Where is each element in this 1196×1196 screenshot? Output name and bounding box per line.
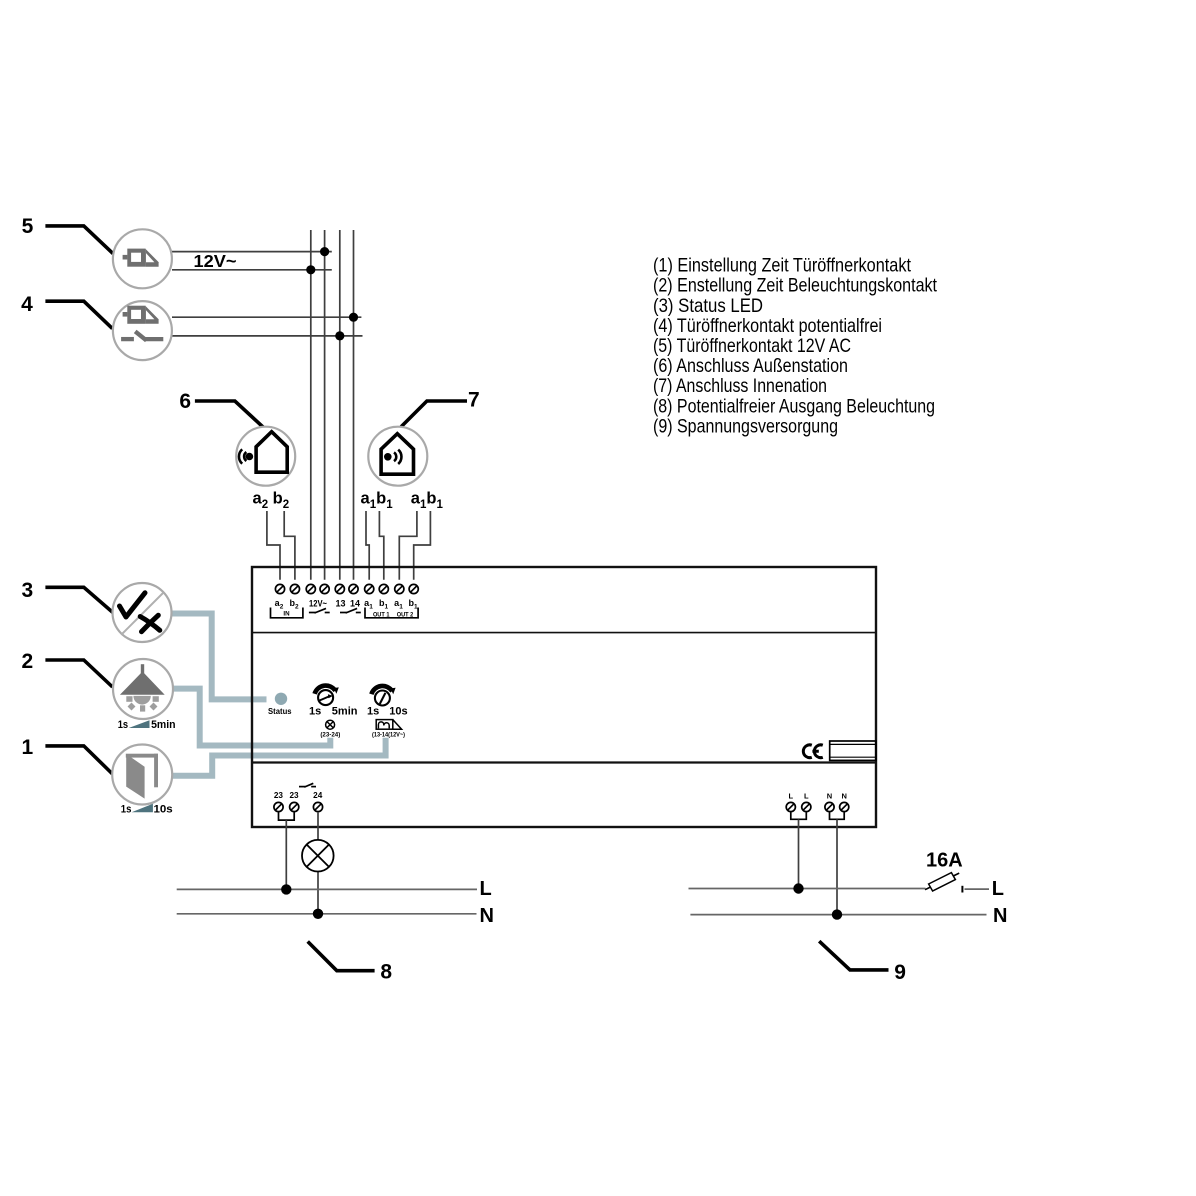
terminals L L N N: [789, 792, 847, 801]
svg-text:N: N: [841, 792, 846, 801]
svg-text:N: N: [827, 792, 832, 801]
svg-text:(2) Enstellung Zeit Beleuchtun: (2) Enstellung Zeit Beleuchtungskontakt: [653, 275, 937, 297]
leader line 9: [819, 941, 888, 970]
wire 12V~ bus 2: [324, 230, 326, 580]
wire b1 to terminal OUT1: [379, 511, 383, 580]
door opener symbol (13-14): [376, 720, 401, 730]
svg-text:2: 2: [21, 650, 33, 673]
contact symbol 12V~: [309, 608, 330, 613]
svg-text:5min: 5min: [332, 705, 358, 717]
terminal L (2): [802, 802, 811, 811]
svg-text:1s: 1s: [367, 705, 379, 717]
terminal labels row: [275, 598, 418, 611]
svg-text:14: 14: [350, 599, 360, 609]
leader line 5: [45, 226, 113, 254]
junction node on bus 13: [335, 331, 344, 340]
contact symbol 13-14: [340, 608, 361, 613]
relay contact symbol above 24: [299, 783, 316, 787]
svg-text:3: 3: [21, 579, 33, 602]
leader line 2: [45, 660, 112, 687]
svg-text:5: 5: [22, 215, 34, 238]
fuse 16A: [925, 873, 959, 891]
svg-text:L: L: [992, 878, 1004, 900]
leader line 7: [401, 401, 467, 427]
svg-text:6: 6: [179, 390, 191, 413]
junction node on bus 1: [306, 265, 315, 274]
terminal b2: [290, 584, 299, 593]
svg-text:16A: 16A: [926, 849, 963, 871]
wire gray from door icon (1) to (13-14) symbol: [173, 738, 386, 776]
wire gray from status-LED icon (3) to Status LED: [172, 614, 267, 700]
svg-text:10s: 10s: [154, 803, 173, 815]
svg-text:Status: Status: [268, 707, 292, 716]
svg-text:4: 4: [21, 293, 33, 316]
svg-text:23: 23: [289, 791, 299, 800]
leader line 8: [308, 942, 375, 971]
svg-text:7: 7: [468, 389, 480, 412]
terminal a2: [275, 584, 284, 593]
svg-text:L: L: [480, 878, 492, 900]
lamp load symbol: [302, 840, 334, 872]
icon circle 5: 12V door opener: [113, 229, 172, 288]
icon circle 3: status check: [113, 583, 172, 642]
lamp symbol (23-24): [326, 720, 335, 729]
svg-text:(7) Anschluss Innenation: (7) Anschluss Innenation: [653, 375, 827, 397]
tick after fuse: [961, 886, 963, 893]
L line right: [689, 888, 926, 890]
svg-text:24: 24: [313, 791, 323, 800]
svg-text:OUT 2: OUT 2: [397, 611, 414, 618]
leader line 4: [45, 301, 112, 328]
leader line 6: [195, 401, 264, 428]
N line right: [690, 914, 986, 916]
svg-text:23: 23: [274, 791, 284, 800]
terminal N (2): [840, 802, 849, 811]
leader line 3: [45, 587, 112, 612]
L line right stub: [965, 888, 990, 890]
CE mark: [803, 745, 822, 758]
junction node N left: [313, 909, 323, 919]
wire 12V~ bus 1: [310, 230, 312, 580]
terminal b1 OUT1: [379, 584, 388, 593]
svg-text:(8) Potentialfreier Ausgang Be: (8) Potentialfreier Ausgang Beleuchtung: [653, 395, 935, 417]
svg-text:(4) Türöffnerkontakt potential: (4) Türöffnerkontakt potentialfrei: [653, 315, 882, 337]
module divider upper: [252, 632, 876, 634]
junction node L right: [793, 883, 803, 893]
terminal a1 OUT1: [365, 584, 374, 593]
wire a2 to terminal: [267, 511, 280, 580]
status LED: [275, 693, 287, 705]
junction node L left: [281, 884, 291, 894]
svg-text:1s: 1s: [309, 705, 321, 717]
wire from 24 down through lamp: [317, 812, 319, 914]
type label plate: [830, 741, 876, 760]
terminal 24: [313, 802, 322, 811]
wire 13 bus: [339, 230, 341, 580]
svg-text:(5) Türöffnerkontakt 12V AC: (5) Türöffnerkontakt 12V AC: [653, 335, 851, 357]
wire b1 to terminal OUT2: [414, 511, 431, 580]
icon circle 4: potential-free door opener: [113, 301, 172, 360]
icon circle 2: lighting: [113, 659, 173, 719]
wire 14 bus: [353, 230, 355, 580]
junction node on bus 2: [320, 247, 329, 256]
bracket IN: [271, 608, 303, 618]
svg-text:12V~: 12V~: [309, 599, 327, 609]
wire from icon 4 upper: [172, 316, 361, 318]
icon circle 1: door: [112, 745, 172, 805]
wire from icon 5 upper: [172, 251, 332, 253]
terminal 14: [349, 584, 358, 593]
svg-text:10s: 10s: [389, 705, 407, 717]
wire from icon 5 lower: [172, 269, 332, 271]
svg-text:8: 8: [380, 961, 392, 984]
module divider lower: [252, 761, 876, 763]
svg-text:(3) Status LED: (3) Status LED: [653, 295, 763, 317]
L line left: [177, 888, 477, 890]
terminal L (1): [786, 802, 795, 811]
junction node N right: [832, 909, 842, 919]
bracket joining N N: [830, 812, 845, 819]
bracket OUT1 OUT2: [365, 608, 418, 618]
svg-text:N: N: [480, 905, 494, 927]
svg-text:(23-24): (23-24): [320, 731, 340, 738]
svg-text:13: 13: [335, 599, 345, 609]
leader line 1: [45, 746, 112, 774]
potentiometer 2 (door time): [371, 686, 395, 706]
svg-text:L: L: [804, 792, 809, 801]
svg-text:N: N: [993, 905, 1007, 927]
terminals 23 23 24: [274, 791, 323, 800]
wire gray from lamp icon (2) to (23-24) symbol: [173, 689, 331, 746]
bracket joining 23 23: [279, 812, 295, 820]
terminal b1 OUT2: [409, 584, 418, 593]
wire from L bracket down: [798, 819, 800, 888]
terminal 23 (a): [274, 802, 283, 811]
N line left: [177, 913, 477, 915]
terminal a1 OUT2: [395, 584, 404, 593]
wire a1 to terminal OUT2: [399, 511, 417, 580]
wire from 23 bracket down: [285, 820, 287, 889]
svg-text:OUT 1: OUT 1: [373, 611, 390, 618]
terminal 12V~ (1): [306, 584, 315, 593]
svg-text:1s: 1s: [118, 719, 128, 731]
svg-text:L: L: [789, 792, 794, 801]
wire from N bracket down: [836, 819, 838, 914]
relay module housing: [252, 567, 876, 827]
wire from icon 4 lower: [172, 335, 363, 337]
svg-text:(13-14(12V~): (13-14(12V~): [372, 731, 405, 738]
svg-text:(1) Einstellung Zeit Türöffner: (1) Einstellung Zeit Türöffnerkontakt: [653, 255, 911, 277]
terminal N (1): [825, 802, 834, 811]
terminal 12V~ (2): [320, 584, 329, 593]
terminal screws top row: [275, 584, 418, 593]
junction node on bus 14: [349, 313, 358, 322]
svg-text:9: 9: [894, 961, 906, 984]
wire b2 to terminal: [284, 511, 295, 580]
svg-text:(6) Anschluss Außenstation: (6) Anschluss Außenstation: [653, 355, 848, 377]
svg-text:5min: 5min: [151, 719, 176, 731]
potentiometer 1 (light time): [315, 686, 339, 706]
svg-text:1s: 1s: [121, 803, 132, 815]
icon circle 7: indoor station: [368, 427, 427, 486]
wire a1 to terminal OUT1: [366, 511, 369, 580]
svg-text:(9) Spannungsversorgung: (9) Spannungsversorgung: [653, 415, 838, 437]
svg-text:IN: IN: [283, 611, 290, 618]
icon circle 6: outdoor station: [236, 427, 295, 486]
terminal 23 (b): [290, 802, 299, 811]
svg-text:1: 1: [21, 736, 33, 759]
legend text list: [653, 255, 937, 438]
svg-text:12V~: 12V~: [194, 251, 237, 271]
bracket joining L L: [791, 812, 807, 819]
terminal 13: [335, 584, 344, 593]
